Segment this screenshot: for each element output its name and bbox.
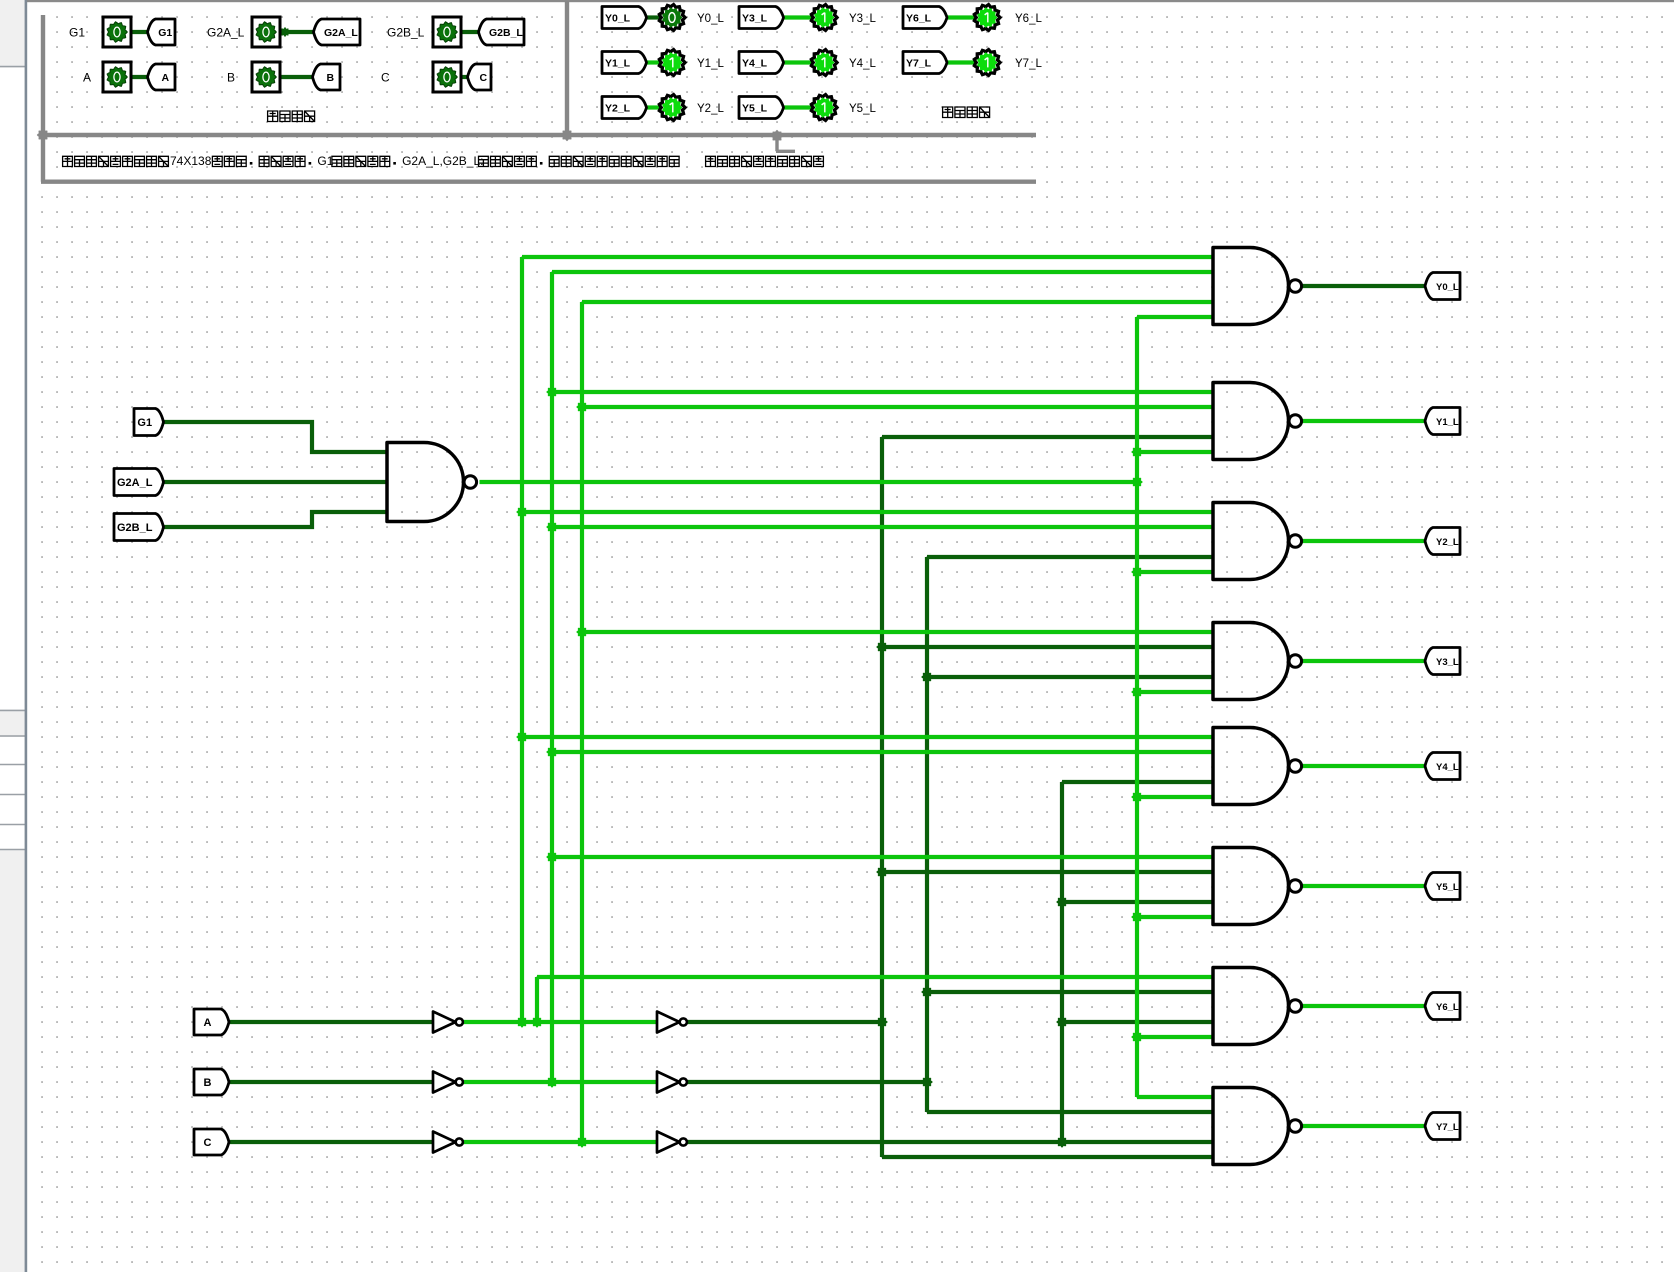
wire B' to U7 input 1 (552, 855, 1213, 859)
tag Y1_L (panel) (602, 52, 647, 74)
svg-text:Y1_L: Y1_L (1436, 417, 1459, 428)
wire A' to U4 input 1 (522, 510, 1213, 514)
wire U8 output to tag Y6_L (1303, 1004, 1426, 1008)
tag Y7_L (panel) (903, 52, 947, 74)
wire Y4_L tag to LED (784, 60, 813, 64)
wire Y0_L tag to LED (647, 15, 661, 19)
tag Y3_L (schematic) (1425, 648, 1460, 675)
svg-text:Y3_L: Y3_L (1436, 657, 1459, 668)
wire A' to U6 input 1 (522, 735, 1213, 739)
wire EN to U5 input 4 (1137, 690, 1213, 694)
input pin G1 (103, 17, 131, 47)
wire U4 output to tag Y2_L (1303, 539, 1426, 543)
tag Y2_L (panel) (602, 97, 647, 119)
junction bright at 537,1022 (531, 1016, 543, 1028)
tag B (panel) (313, 64, 341, 90)
wire vertical bus A' (x=522) (520, 257, 524, 1022)
wire EN to U4 input 4 (1137, 570, 1213, 574)
NAND gate U7 (Y5_L) (1213, 848, 1289, 925)
LED Y1_L (659, 50, 685, 76)
tag Y5_L (schematic) (1425, 873, 1460, 900)
frame junction middle (561, 129, 573, 141)
LED Y0_L (659, 5, 685, 31)
description text line (63, 156, 73, 166)
wire vertical bus C' (x=582) (580, 302, 584, 1142)
description text note (706, 156, 716, 166)
svg-text:Y4_L: Y4_L (742, 58, 768, 70)
wire A tag to inverter A1 (229, 1020, 433, 1024)
junction bright at 1137,1037 (1131, 1031, 1143, 1043)
junction bright at 552,527 (546, 521, 558, 533)
frame junction right (771, 130, 783, 142)
svg-text:G1: G1 (137, 417, 152, 429)
wire B to U8 input 2 (927, 990, 1213, 994)
wire U2 output to tag Y0_L (1303, 284, 1426, 288)
wire C' to U5 input 1 (582, 630, 1213, 634)
svg-text:B: B (204, 1077, 212, 1089)
tag Y0_L (panel) (602, 7, 647, 29)
NAND gate U2 (Y0_L) (1213, 248, 1289, 325)
tag Y5_L (panel) (739, 97, 784, 119)
svg-text:Y7_L: Y7_L (906, 58, 932, 70)
wire B' to U3 input 1 (552, 390, 1213, 394)
wire B' between inverters (463, 1080, 657, 1084)
svg-text:Y0_L: Y0_L (605, 13, 631, 25)
wire Y7_L tag to LED (947, 60, 976, 64)
wire A to U7 input 2 (882, 870, 1213, 874)
junction bright at 522,1022 (516, 1016, 528, 1028)
NAND gate U9 (Y7_L) (1213, 1088, 1289, 1165)
svg-text:B: B (227, 71, 235, 85)
LED Y7_L (974, 50, 1000, 76)
wire vertical bus EN (x=1137) (1135, 317, 1139, 1097)
svg-text:Y3_L: Y3_L (742, 13, 768, 25)
tag Y2_L (schematic) (1425, 528, 1460, 555)
wire EN to U8 input 4 (1137, 1035, 1213, 1039)
junction dark at 1062,902 (1056, 896, 1068, 908)
left sidebar white rows (0, 737, 25, 849)
junction bright at 582,1142 (576, 1136, 588, 1148)
wire G2B_L pin to tag (461, 30, 479, 34)
junction bright at 522,737 (516, 731, 528, 743)
wire EN to U9 input 1 (1137, 1095, 1213, 1099)
canvas top border (27, 0, 1674, 2)
junction dark at 882,647 (876, 641, 888, 653)
input pin G2B_L (433, 17, 461, 47)
svg-text:Y0_L: Y0_L (1436, 282, 1459, 293)
junction bright at 552,857 (546, 851, 558, 863)
wire U9 output to tag Y7_L (1303, 1124, 1426, 1128)
wire vertical bus B (x=927) (925, 557, 929, 1112)
wire U1 output (enable net) (480, 480, 1138, 484)
LED Y4_L (811, 50, 837, 76)
wire vertical bus B' (x=552) (550, 272, 554, 1082)
svg-text:B: B (326, 72, 334, 84)
junction bright at 1137,482 (1131, 476, 1143, 488)
wire Y5_L tag to LED (784, 105, 813, 109)
NAND gate U6 (Y4_L) (1213, 728, 1289, 805)
junction bright at 582,632 (576, 626, 588, 638)
junction bright at 1137,692 (1131, 686, 1143, 698)
wire Y1_L tag to LED (647, 60, 661, 64)
tag Y6_L (panel) (903, 7, 947, 29)
frame middle horizontal line (41, 133, 1036, 137)
junction bright at 1137,452 (1131, 446, 1143, 458)
junction dark at 927,992 (921, 986, 933, 998)
NAND gate U3 (Y1_L) (1213, 383, 1289, 460)
tag Y7_L (schematic) (1425, 1113, 1460, 1140)
wire A' between inverters (463, 1020, 657, 1024)
svg-text:G2B_L: G2B_L (117, 522, 153, 534)
junction dark at 1062,1022 (1056, 1016, 1068, 1028)
LED Y6_L (974, 5, 1000, 31)
wire A to U9 input 4 (882, 1155, 1213, 1159)
svg-text:74X138: 74X138 (170, 154, 212, 168)
wire Y6_L tag to LED (947, 15, 976, 19)
wire G2A_L pin to tag (280, 30, 314, 34)
wire B to U9 input 2 (927, 1110, 1213, 1114)
svg-text:G2B_L: G2B_L (387, 26, 425, 40)
svg-text:Y1_L: Y1_L (697, 58, 724, 70)
input pin G2A_L (252, 17, 280, 47)
junction bright at 552,1082 (546, 1076, 558, 1088)
wire U6 output to tag Y4_L (1303, 764, 1426, 768)
wire B tag to inverter B1 (229, 1080, 433, 1084)
junction bright at 1137,572 (1131, 566, 1143, 578)
tag B (schematic) (194, 1069, 229, 1095)
junction bright at 1137,797 (1131, 791, 1143, 803)
inverter B2 (657, 1072, 680, 1093)
inverter A1 (433, 1012, 456, 1033)
wire B' to U4 input 2 (552, 525, 1213, 529)
wire C to U7 input 3 (1062, 900, 1213, 904)
input pin B (252, 62, 280, 92)
tag G2A_L (panel) (314, 19, 361, 45)
svg-text:G1: G1 (69, 26, 85, 40)
tag Y4_L (schematic) (1425, 753, 1460, 780)
wire G1 pin to tag (131, 30, 148, 34)
wire U5 output to tag Y3_L (1303, 659, 1426, 663)
left sidebar white section (0, 68, 25, 709)
junction dark at 1062,1142 (1056, 1136, 1068, 1148)
wire C to U8 input 3 (1062, 1020, 1213, 1024)
tag Y0_L (schematic) (1425, 273, 1460, 300)
wire U3 output to tag Y1_L (1303, 419, 1426, 423)
tag G2B_L (schematic) (114, 514, 164, 541)
wire C to U9 input 3 (687, 1140, 1213, 1144)
svg-text:Y5_L: Y5_L (1436, 882, 1459, 893)
frame vertical line (41, 15, 45, 182)
tag Y4_L (panel) (739, 52, 784, 74)
inverter B1 (433, 1072, 456, 1093)
wire A to U3 input 3 (882, 435, 1213, 439)
wire EN to U6 input 4 (1137, 795, 1213, 799)
tag C (panel) (468, 64, 492, 90)
svg-text:Y7_L: Y7_L (1436, 1122, 1459, 1133)
svg-text:G2B_L: G2B_L (489, 27, 523, 39)
wire U7 output to tag Y5_L (1303, 884, 1426, 888)
junction dark at 882,1022 (876, 1016, 888, 1028)
tag C (schematic) (194, 1129, 229, 1155)
LED Y2_L (659, 95, 685, 121)
tag G2B_L (panel) (479, 19, 525, 45)
tag A (panel) (148, 64, 176, 90)
frame bottom horizontal line (41, 179, 1036, 183)
svg-text:Y2_L: Y2_L (605, 103, 631, 115)
left sidebar strip (0, 0, 25, 1272)
svg-text:G2A_L: G2A_L (117, 477, 153, 489)
svg-text:A: A (161, 72, 169, 84)
wire B' to U2 input 2 (552, 270, 1213, 274)
wire EN to U2 input 4 (1137, 315, 1213, 319)
wire C to U6 input 3 (1062, 780, 1213, 784)
junction bright at 522,512 (516, 506, 528, 518)
svg-text:G2A_L: G2A_L (324, 27, 358, 39)
tag G2A_L (schematic) (114, 469, 164, 496)
wire Y2_L tag to LED (647, 105, 661, 109)
inverter C2 (657, 1132, 680, 1153)
svg-text:Y6_L: Y6_L (906, 13, 932, 25)
junction dark at 927,677 (921, 671, 933, 683)
wire EN to U3 input 4 (1137, 450, 1213, 454)
svg-text:Y0_L: Y0_L (697, 13, 724, 25)
junction bright at 552,392 (546, 386, 558, 398)
frame divider vertical (565, 1, 569, 135)
frame stub (776, 136, 795, 151)
wire vertical bus A' branch (x=537) (535, 977, 539, 1022)
wire Y3_L tag to LED (784, 15, 813, 19)
svg-text:G2A_L,G2B_L:: G2A_L,G2B_L: (402, 154, 483, 168)
svg-text:Y5_L: Y5_L (849, 103, 876, 115)
svg-text:Y4_L: Y4_L (849, 58, 876, 70)
svg-text:Y4_L: Y4_L (1436, 762, 1459, 773)
tag A (schematic) (194, 1009, 229, 1035)
wire A buffered (687, 1020, 882, 1024)
wire C' to U3 input 2 (582, 405, 1213, 409)
svg-text:A: A (83, 71, 91, 85)
wire B pin to tag (280, 75, 313, 79)
tag Y1_L (schematic) (1425, 408, 1460, 435)
tag Y3_L (panel) (739, 7, 784, 29)
junction bright at 1137,917 (1131, 911, 1143, 923)
left sidebar border (25, 0, 28, 1272)
inverter A2 (657, 1012, 680, 1033)
junction bright at 552,752 (546, 746, 558, 758)
svg-text:G2A_L: G2A_L (207, 26, 245, 40)
svg-text:G1: G1 (158, 27, 172, 39)
wire C' to U2 input 3 (582, 300, 1213, 304)
tag Y6_L (schematic) (1425, 993, 1460, 1020)
wire C' between inverters (463, 1140, 657, 1144)
svg-text:C: C (204, 1137, 212, 1149)
inverter C1 (433, 1132, 456, 1153)
tag G1 (panel) (148, 19, 176, 45)
wire C pin to tag (461, 75, 468, 79)
wire vertical bus C (x=1062) (1060, 782, 1064, 1142)
wire A pin to tag (131, 75, 148, 79)
wire EN to U7 input 4 (1137, 915, 1213, 919)
wire A' to U2 input 1 (522, 255, 1213, 259)
wire A to U5 input 2 (882, 645, 1213, 649)
caption input pins (268, 111, 278, 122)
svg-text:A: A (204, 1017, 212, 1029)
svg-text:Y2_L: Y2_L (697, 103, 724, 115)
svg-text:Y3_L: Y3_L (849, 13, 876, 25)
wire B to U5 input 3 (927, 675, 1213, 679)
wire B to U4 input 3 (927, 555, 1213, 559)
wire C tag to inverter C1 (229, 1140, 433, 1144)
junction bright at 582,407 (576, 401, 588, 413)
left sidebar row separators (0, 67, 25, 850)
input pin A (103, 62, 131, 92)
LED Y3_L (811, 5, 837, 31)
LED Y5_L (811, 95, 837, 121)
svg-text:Y7_L: Y7_L (1015, 58, 1042, 70)
svg-text:Y6_L: Y6_L (1436, 1002, 1459, 1013)
wire B' to U6 input 2 (552, 750, 1213, 754)
svg-text:Y1_L: Y1_L (605, 58, 631, 70)
NAND gate U1 (enable) (387, 443, 464, 522)
svg-text:Y5_L: Y5_L (742, 103, 768, 115)
frame junction left (37, 129, 49, 141)
wire G2B_L to NAND U1 input 3 (164, 512, 388, 527)
svg-text:C: C (381, 71, 390, 85)
wire B buffered (687, 1080, 927, 1084)
wire G2A_L to NAND U1 input 2 (164, 480, 388, 484)
wire vertical bus A (x=882) (880, 437, 884, 1157)
NAND gate U4 (Y2_L) (1213, 503, 1289, 580)
NAND gate U5 (Y3_L) (1213, 623, 1289, 700)
svg-text:Y2_L: Y2_L (1436, 537, 1459, 548)
caption output pins (943, 107, 953, 118)
svg-text:C: C (479, 72, 487, 84)
junction dark at 927,1082 (921, 1076, 933, 1088)
junction on G2A_L wire (280, 27, 290, 37)
tag G1 (schematic) (134, 409, 164, 436)
wire A' to U8 input 1 (537, 975, 1213, 979)
wire G1 to NAND U1 input 1 (164, 422, 388, 452)
input pin C (433, 62, 461, 92)
NAND gate U8 (Y6_L) (1213, 968, 1289, 1045)
junction dark at 882,872 (876, 866, 888, 878)
svg-text:Y6_L: Y6_L (1015, 13, 1042, 25)
